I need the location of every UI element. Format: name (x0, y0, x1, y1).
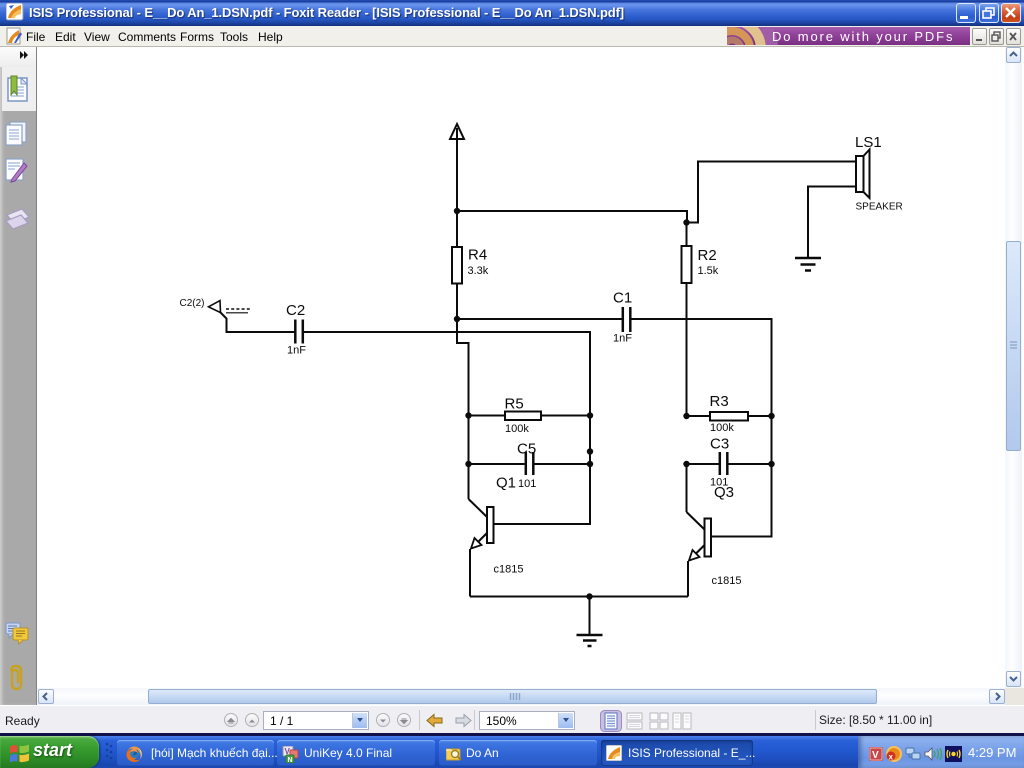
transistor Q1 (469, 499, 494, 597)
scrollbars (1005, 47, 1022, 688)
svg-text:100k: 100k (710, 422, 734, 434)
svg-text:c1815: c1815 (494, 564, 524, 576)
node R2 top junction (683, 219, 689, 225)
wire speaker bottom to ground (808, 187, 856, 259)
svg-text:3.3k: 3.3k (468, 265, 489, 277)
svg-text:R4: R4 (468, 247, 487, 264)
node R5 right junction (587, 412, 593, 418)
wire VCC rail to R2 (457, 211, 687, 223)
svg-text:C1: C1 (613, 290, 632, 307)
node R5 left junction (465, 412, 471, 418)
svg-text:101: 101 (518, 478, 536, 490)
wire C1 rail left (457, 318, 622, 320)
speaker LS1 (856, 150, 870, 199)
node C5 left junction (465, 461, 471, 467)
svg-text:LS1: LS1 (855, 134, 882, 151)
capacitor C3 (687, 452, 772, 475)
node R4 bottom junction (454, 316, 460, 322)
resistor R5 (469, 412, 591, 421)
svg-text:R2: R2 (698, 247, 717, 264)
node C5 right junction (587, 461, 593, 467)
resistor R3 (687, 412, 772, 421)
svg-text:SPEAKER: SPEAKER (856, 202, 903, 213)
ground (speaker) (795, 258, 821, 271)
svg-text:C3: C3 (710, 436, 729, 453)
node C2(2) input terminal (180, 298, 251, 313)
svg-text:Q1: Q1 (496, 475, 516, 492)
node R3 right junction (768, 413, 774, 419)
wire C1 rail right (632, 319, 772, 416)
svg-text:1nF: 1nF (613, 333, 632, 345)
svg-text:C5: C5 (517, 441, 536, 458)
capacitor C2 (295, 320, 303, 344)
svg-text:R5: R5 (505, 396, 524, 413)
svg-text:1.5k: 1.5k (698, 265, 719, 277)
capacitor C1 (623, 307, 631, 332)
node VCC rail junction (454, 208, 460, 214)
ground (emitters) (577, 597, 603, 647)
svg-text:1nF: 1nF (287, 345, 306, 357)
transistor Q3 (687, 464, 712, 597)
power symbol VCC (450, 124, 464, 247)
wire to speaker top (687, 162, 857, 223)
node C3 left junction (683, 461, 689, 467)
svg-text:R3: R3 (710, 393, 729, 410)
node C3 right junction (768, 461, 774, 467)
wire input to C2 (220, 312, 295, 333)
svg-text:100k: 100k (505, 423, 529, 435)
wire R4 node step down (457, 319, 469, 499)
resistor R2 (682, 223, 692, 417)
svg-text:Q3: Q3 (714, 484, 734, 501)
node R3 left junction (683, 413, 689, 419)
wire R4 bottom (456, 284, 458, 320)
menu row (0, 26, 1024, 47)
svg-text:C2(2): C2(2) (180, 298, 205, 309)
status bar (0, 705, 1024, 733)
svg-text:c1815: c1815 (712, 575, 742, 587)
capacitor C5 (469, 452, 591, 475)
node C2 net stub junction (587, 448, 593, 454)
title bar (0, 0, 1024, 26)
taskbar (0, 733, 1024, 736)
resistor R4 (452, 247, 462, 284)
wire C1 net down to Q3 base (711, 416, 772, 537)
svg-text:C2: C2 (286, 302, 305, 319)
wire emitter rail (470, 596, 688, 598)
node ground junction (586, 593, 592, 599)
wire C2 to Q1 base net (304, 332, 590, 524)
